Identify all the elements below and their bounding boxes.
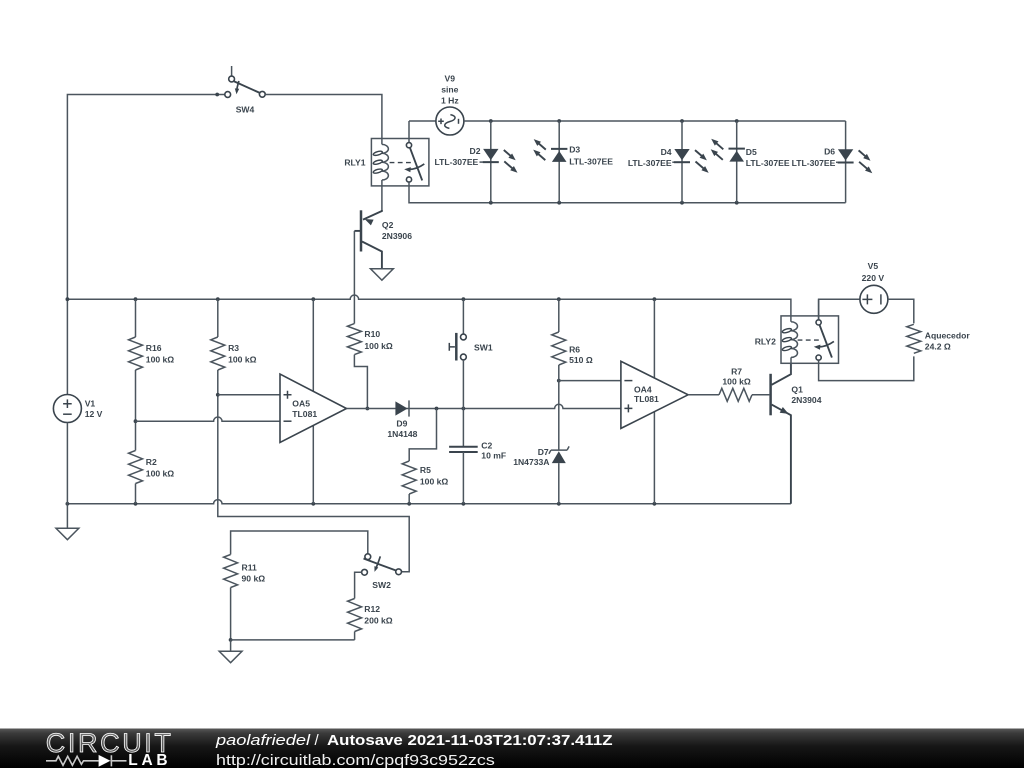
junction [66, 297, 70, 301]
svg-text:100 kΩ: 100 kΩ [722, 377, 751, 387]
junction [489, 119, 493, 123]
svg-text:510 Ω: 510 Ω [569, 355, 593, 365]
junction [216, 393, 220, 397]
svg-text:LTL-307EE: LTL-307EE [569, 156, 613, 166]
svg-text:D4: D4 [661, 147, 672, 157]
junction [407, 502, 411, 506]
resistor R5 [402, 461, 416, 494]
wire [653, 299, 655, 504]
switch SW2 [365, 554, 371, 560]
wire [558, 121, 560, 203]
wire [231, 639, 355, 641]
footer bar [0, 729, 1024, 768]
wire [230, 640, 232, 651]
junction [215, 93, 219, 97]
svg-text:LTL-307EE: LTL-307EE [792, 158, 836, 168]
svg-text:R12: R12 [364, 604, 380, 614]
wire [409, 182, 846, 202]
wire [135, 484, 137, 504]
svg-text:2N3906: 2N3906 [382, 231, 412, 241]
svg-text:10 mF: 10 mF [481, 450, 506, 460]
wire (hops OA5 output wire) [558, 365, 560, 504]
svg-text:http://circuitlab.com/cpqf93c9: http://circuitlab.com/cpqf93c952zcs [216, 752, 495, 768]
wire [230, 588, 232, 640]
LED D2 [483, 149, 498, 160]
wire [819, 356, 914, 380]
svg-text:LTL-307EE: LTL-307EE [628, 158, 672, 168]
resistor R12 [348, 599, 362, 632]
junction [66, 502, 70, 506]
relay RLY1 coil [382, 144, 389, 180]
svg-text:R7: R7 [731, 366, 742, 376]
svg-text:220 V: 220 V [862, 273, 885, 283]
svg-text:OA5: OA5 [292, 398, 310, 408]
resistor R3 [211, 337, 225, 370]
junction [216, 297, 220, 301]
relay RLY1 contact [408, 121, 410, 142]
svg-text:R11: R11 [242, 563, 258, 573]
junction [680, 201, 684, 205]
wire [67, 95, 224, 395]
junction [735, 119, 739, 123]
wire [136, 417, 281, 421]
ground [371, 269, 394, 280]
LED D5 [729, 148, 745, 150]
svg-text:RLY2: RLY2 [755, 336, 776, 346]
resistor R2 [129, 451, 143, 484]
wire [462, 409, 464, 447]
resistor R11 [224, 555, 238, 588]
svg-text:V5: V5 [868, 261, 879, 271]
svg-text:R2: R2 [146, 457, 157, 467]
wire [462, 299, 464, 334]
svg-text:D2: D2 [470, 146, 481, 156]
switch SW4 [225, 92, 231, 98]
junction [462, 502, 466, 506]
junction [134, 502, 138, 506]
svg-text:100 kΩ: 100 kΩ [146, 469, 175, 479]
wire [347, 404, 621, 408]
ground [219, 651, 242, 662]
op-amp OA4 [621, 361, 688, 428]
wire [462, 360, 464, 409]
voltage source V1 [53, 395, 81, 423]
wire [752, 394, 769, 396]
svg-text:200 kΩ: 200 kΩ [364, 616, 393, 626]
svg-text:LAB: LAB [128, 752, 171, 768]
svg-text:paolafriedel: paolafriedel [215, 732, 311, 749]
junction [653, 502, 657, 506]
svg-text:OA4: OA4 [634, 385, 652, 395]
svg-text:RLY1: RLY1 [344, 158, 365, 168]
resistor R6 [552, 332, 566, 365]
wire [265, 95, 382, 145]
wire [217, 299, 219, 337]
junction [735, 201, 739, 205]
voltage source V5 [860, 285, 888, 313]
svg-text:1N4148: 1N4148 [387, 429, 417, 439]
junction [366, 407, 370, 411]
wire [558, 299, 560, 332]
junction [557, 297, 561, 301]
LED D4 [674, 149, 689, 160]
svg-text:V1: V1 [85, 398, 96, 408]
LED D3 [551, 148, 567, 150]
svg-text:C2: C2 [481, 440, 492, 450]
svg-text:V9: V9 [445, 74, 456, 84]
relay RLY2 coil [791, 322, 798, 358]
wire [135, 370, 137, 451]
junction [134, 297, 138, 301]
svg-text:TL081: TL081 [634, 394, 659, 404]
wire [354, 355, 367, 409]
switch SW1 [461, 334, 467, 340]
svg-text:D7: D7 [538, 447, 549, 457]
relay RLY2 box [781, 316, 839, 363]
svg-text:R10: R10 [364, 329, 380, 339]
relay RLY2 contact [818, 299, 820, 319]
junction [557, 379, 561, 383]
diode D9 [395, 401, 407, 415]
svg-text:Autosave 2021-11-03T21:07:37.4: Autosave 2021-11-03T21:07:37.411Z [327, 732, 613, 749]
wire [819, 299, 860, 319]
wire [464, 120, 846, 122]
resistor R16 [129, 337, 143, 370]
wire [218, 370, 409, 572]
svg-text:R6: R6 [569, 344, 580, 354]
svg-text:Q1: Q1 [791, 385, 803, 395]
wire [355, 572, 362, 598]
wire [845, 121, 847, 203]
svg-text:R5: R5 [420, 465, 431, 475]
svg-text:D5: D5 [746, 147, 757, 157]
svg-text:R16: R16 [146, 343, 162, 353]
wire [353, 231, 355, 324]
wire [312, 299, 314, 504]
wire [736, 121, 738, 203]
junction [462, 297, 466, 301]
wire [135, 299, 137, 337]
svg-text:90 kΩ: 90 kΩ [242, 574, 266, 584]
wire [409, 120, 436, 122]
svg-text:Q2: Q2 [382, 220, 394, 230]
resistor Aquecedor [907, 324, 921, 353]
transistor Q1 [769, 374, 772, 416]
svg-text:D3: D3 [569, 145, 580, 155]
wire [408, 494, 410, 504]
svg-text:LTL-307EE: LTL-307EE [746, 158, 790, 168]
wire [231, 531, 368, 555]
wire [462, 452, 464, 504]
svg-text:Aquecedor: Aquecedor [925, 330, 971, 340]
svg-text:SW1: SW1 [474, 343, 493, 353]
wire [66, 423, 68, 529]
zener diode D7 [552, 451, 566, 463]
svg-text:100 kΩ: 100 kΩ [364, 341, 393, 351]
capacitor C2 [449, 446, 478, 448]
wire [681, 121, 683, 203]
transistor Q2 [360, 210, 363, 251]
junction [134, 419, 138, 423]
svg-text:12 V: 12 V [85, 409, 103, 419]
junction [489, 201, 493, 205]
wire [67, 500, 791, 504]
junction [462, 407, 466, 411]
svg-text:24.2 Ω: 24.2 Ω [925, 341, 951, 351]
svg-text:100 kΩ: 100 kΩ [228, 355, 257, 365]
junction [229, 638, 233, 642]
svg-text:1N4733A: 1N4733A [513, 457, 549, 467]
wire [218, 394, 280, 396]
logo squiggle [46, 756, 99, 765]
wire [559, 380, 621, 382]
svg-text:100 kΩ: 100 kΩ [420, 476, 449, 486]
svg-text:D6: D6 [824, 147, 835, 157]
LED D6 [838, 149, 853, 160]
svg-text:sine: sine [441, 85, 458, 95]
junction [653, 297, 657, 301]
svg-text:LTL-307EE: LTL-307EE [435, 157, 479, 167]
junction [680, 119, 684, 123]
junction [557, 502, 561, 506]
wire [888, 299, 914, 323]
ground [56, 528, 79, 539]
wire [490, 121, 492, 203]
wire [67, 295, 791, 322]
junction [311, 297, 315, 301]
svg-text:SW2: SW2 [372, 580, 391, 590]
resistor R7 [719, 388, 752, 401]
voltage source V9 [436, 107, 464, 135]
svg-text:1 Hz: 1 Hz [441, 95, 459, 105]
junction [557, 201, 561, 205]
wire [688, 394, 719, 396]
svg-text:D9: D9 [396, 419, 407, 429]
svg-text:SW4: SW4 [236, 105, 255, 115]
junction [557, 119, 561, 123]
svg-text:2N3904: 2N3904 [791, 395, 821, 405]
wire [354, 632, 356, 640]
wire [381, 180, 383, 210]
junction [311, 502, 315, 506]
svg-text:TL081: TL081 [292, 409, 317, 419]
svg-text:100 kΩ: 100 kΩ [146, 355, 175, 365]
svg-text:R3: R3 [228, 343, 239, 353]
junction [435, 407, 439, 411]
resistor R10 [347, 324, 361, 355]
wire [409, 409, 436, 462]
op-amp OA5 [280, 374, 347, 442]
relay RLY1 box [371, 139, 429, 186]
